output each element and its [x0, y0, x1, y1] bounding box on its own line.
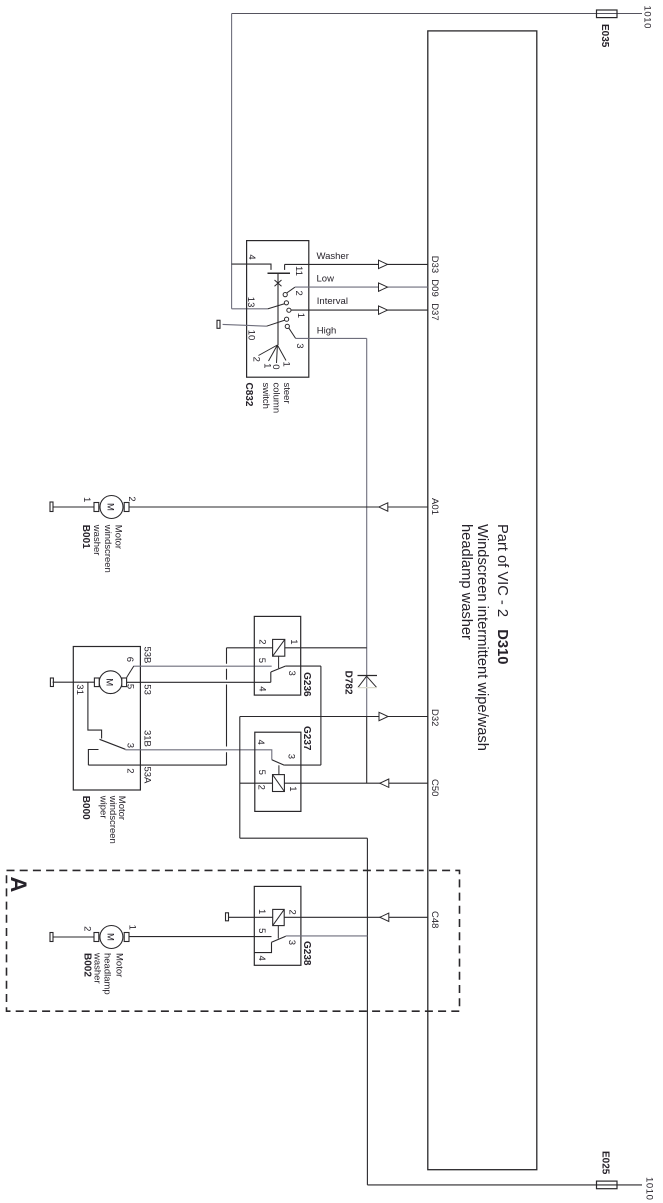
G237 coil link [278, 765, 280, 774]
B000 park blade [100, 739, 126, 749]
switch stem [277, 273, 279, 345]
svg-text:3: 3 [294, 343, 305, 348]
svg-text:4: 4 [246, 254, 257, 259]
svg-text:D33: D33 [429, 256, 440, 273]
G236 contact blade [271, 666, 286, 672]
svg-text:4: 4 [255, 740, 266, 745]
svg-text:5: 5 [125, 684, 136, 689]
svg-text:B000: B000 [80, 796, 91, 820]
dashed box A [7, 870, 460, 1011]
switch blade to Low [287, 287, 295, 293]
wire long vertical to E025 [366, 838, 368, 1185]
wire B000 pin6 riser [127, 666, 134, 678]
svg-text:Windscreen intermittent wipe/w: Windscreen intermittent wipe/wash [474, 524, 490, 751]
svg-text:Low: Low [317, 273, 335, 284]
G236 coil link [278, 656, 280, 668]
motor B002 ground wire [53, 936, 94, 938]
svg-text:G236: G236 [301, 672, 312, 697]
connector E025 [597, 1181, 618, 1189]
G237 pin3 wire [284, 764, 321, 766]
switch contact circle 3 [285, 324, 289, 328]
G237 coil [273, 775, 285, 792]
arrow D37 interval [379, 306, 388, 314]
svg-text:E035: E035 [599, 24, 610, 48]
wire bottom to E025 [367, 1184, 642, 1186]
svg-text:3: 3 [286, 940, 297, 945]
switch C832 box [247, 241, 309, 378]
G238 contact drop [254, 942, 271, 952]
switch blade pin10 to contact4 [267, 320, 285, 326]
arrow A01 [379, 503, 388, 511]
wire B000 park common [88, 682, 102, 738]
svg-text:2: 2 [256, 639, 267, 644]
motor B000 left tab [94, 678, 99, 687]
svg-text:13: 13 [245, 297, 256, 308]
svg-text:B001: B001 [80, 525, 91, 549]
wire Washer output [285, 263, 428, 265]
G236 coil wire left [227, 647, 273, 649]
washer contact right bracket [284, 264, 286, 270]
wire D32 branch vertical left [239, 717, 241, 839]
terminal B000 ground [50, 678, 53, 687]
wire D32 [240, 716, 428, 718]
svg-text:3: 3 [285, 754, 296, 759]
svg-text:6: 6 [124, 657, 135, 662]
switch contact circle 4x [285, 317, 289, 321]
switch contact circle 13 [284, 301, 288, 305]
svg-text:5: 5 [256, 658, 267, 663]
svg-text:wiper: wiper [97, 795, 108, 819]
wire 53 pin5 [127, 681, 271, 683]
svg-text:C50: C50 [429, 779, 440, 796]
svg-text:1010: 1010 [643, 1177, 654, 1201]
svg-text:steer: steer [281, 383, 292, 404]
wire C48 [284, 916, 428, 918]
wire High output [296, 337, 367, 339]
svg-text:3: 3 [124, 743, 135, 748]
diode D782 cathode bar [358, 675, 378, 677]
G236 coil diagonal [273, 639, 285, 656]
arrow D09 low [379, 283, 388, 291]
svg-text:5: 5 [256, 928, 267, 933]
svg-text:M: M [104, 933, 115, 941]
svg-text:53A: 53A [142, 767, 153, 785]
motor B000 circle [99, 671, 122, 694]
svg-text:A: A [6, 877, 31, 893]
svg-text:Interval: Interval [317, 296, 348, 307]
motor B002 circle [100, 926, 123, 949]
terminal B002 ground [50, 933, 53, 942]
svg-text:Washer: Washer [317, 251, 349, 262]
svg-text:Motor: Motor [113, 525, 124, 549]
svg-text:2: 2 [124, 768, 135, 773]
svg-text:switch: switch [260, 383, 271, 409]
wire pin 4 [232, 264, 271, 270]
G238 coil link [277, 926, 279, 939]
svg-text:M: M [105, 503, 116, 511]
svg-text:B002: B002 [82, 953, 93, 977]
arrow D32 [379, 712, 388, 720]
wire D32 to C50 junction vertical [366, 717, 368, 784]
G237 coil wire left [240, 782, 273, 784]
switch contact circle 1 [287, 308, 291, 312]
B000 park contact 53A stub [88, 750, 98, 766]
wire A01 [129, 506, 428, 508]
svg-text:3: 3 [286, 671, 297, 676]
wire C50 [284, 782, 427, 784]
svg-text:2: 2 [82, 926, 93, 931]
svg-text:D782: D782 [342, 671, 353, 695]
G236 coil wire right to High line [285, 647, 367, 649]
relay G236 box [254, 616, 300, 695]
wire B002 pin1 to G238 [129, 936, 272, 938]
svg-text:E025: E025 [600, 1151, 611, 1175]
svg-text:4: 4 [256, 686, 267, 691]
svg-text:1: 1 [280, 362, 291, 367]
terminal G238 coil feed [226, 913, 229, 921]
wire 53A riser to G236 coil (broken at crossings) [226, 648, 228, 765]
relay G238 box [254, 886, 301, 965]
svg-text:1010: 1010 [642, 6, 653, 30]
terminal B001 ground [50, 502, 53, 512]
terminal pin10 [217, 320, 220, 328]
arrow C48 [380, 913, 389, 921]
motor B001 right tab [124, 503, 129, 512]
switch blade pin13 to contact2 [268, 304, 285, 309]
svg-text:D32: D32 [429, 709, 440, 726]
wire supply 1010 top horizontal [232, 13, 642, 15]
svg-text:Part of VIC - 2 D310: Part of VIC - 2 D310 [494, 524, 510, 664]
svg-text:2: 2 [293, 291, 304, 296]
svg-text:53: 53 [142, 684, 153, 695]
switch contact circle 2 [283, 293, 287, 297]
svg-text:High: High [317, 325, 337, 336]
wire 53B gray [134, 665, 272, 667]
svg-text:headlamp washer: headlamp washer [458, 524, 474, 640]
G238 coil [273, 909, 285, 925]
arrow C50 [380, 779, 389, 787]
svg-text:M: M [104, 678, 115, 686]
motor B001 ground wire [53, 506, 94, 508]
connector E035 [597, 10, 618, 18]
svg-text:4: 4 [256, 956, 267, 961]
wire supply vertical to switch [231, 14, 233, 309]
svg-text:2: 2 [256, 785, 267, 790]
svg-text:1: 1 [256, 909, 267, 914]
svg-text:1: 1 [295, 313, 306, 318]
svg-text:D37: D37 [429, 303, 440, 320]
switch detent fan [259, 345, 287, 363]
svg-text:C832: C832 [243, 383, 254, 407]
svg-text:31B: 31B [142, 730, 153, 747]
svg-text:A01: A01 [429, 498, 440, 515]
ECU box VIC-2 D310 [428, 31, 537, 1170]
wire Interval output [291, 309, 428, 311]
wire node pin13 feed [232, 308, 268, 310]
wire Low output [295, 286, 428, 288]
wire terminal to G238 coil [229, 916, 273, 918]
svg-text:53B: 53B [142, 647, 153, 664]
wire pin 10 from terminal [223, 324, 267, 326]
svg-text:windscreen: windscreen [102, 524, 113, 573]
washer contact bar [268, 272, 291, 274]
G238 pin3 gray wire [286, 935, 368, 937]
relay G237 box [255, 732, 301, 811]
G237 coil diagonal [273, 775, 285, 792]
G236 pin3 wire [285, 665, 321, 667]
svg-text:1: 1 [287, 786, 298, 791]
motor B001 circle [100, 496, 123, 519]
svg-text:5: 5 [256, 770, 267, 775]
wire 31B gray [125, 750, 271, 760]
motor B001 left tab [94, 503, 99, 512]
G238 contact blade [272, 936, 286, 942]
wire 53A [88, 764, 226, 766]
svg-text:Motor: Motor [113, 953, 124, 977]
svg-text:0: 0 [270, 364, 281, 369]
svg-text:2: 2 [251, 357, 262, 362]
svg-text:2: 2 [287, 910, 298, 915]
svg-text:1: 1 [81, 497, 92, 502]
wire G236 pin3 to G237 pin3 vertical [320, 666, 322, 765]
switch blade contact5 to High [289, 328, 296, 338]
G236 coil [273, 639, 285, 656]
motor B000 box [73, 647, 140, 791]
svg-text:C48: C48 [429, 911, 440, 928]
svg-text:31: 31 [74, 684, 85, 695]
diode D782 triangle [358, 676, 377, 687]
svg-text:D09: D09 [429, 279, 440, 296]
motor B002 right tab [124, 933, 129, 942]
svg-text:G238: G238 [301, 941, 312, 966]
switch link X mark [275, 280, 282, 286]
motor B000 right tab [122, 678, 127, 687]
svg-text:11: 11 [293, 266, 304, 276]
motor B000 ground wire pin31 [53, 681, 95, 683]
svg-text:G237: G237 [301, 726, 312, 751]
svg-text:1: 1 [288, 639, 299, 644]
motor B002 left tab [94, 933, 99, 942]
svg-text:washer: washer [91, 524, 102, 556]
G238 coil diagonal [273, 909, 285, 925]
svg-text:column: column [271, 383, 282, 414]
G236 contact drop [270, 672, 272, 682]
svg-text:2: 2 [126, 496, 137, 501]
svg-text:10: 10 [245, 330, 256, 341]
wire branch horizontal y838 [240, 837, 368, 839]
wire High vertical down [366, 338, 368, 716]
svg-text:1: 1 [127, 925, 138, 930]
arrow D33 washer [379, 260, 388, 268]
G237 contact blade [272, 760, 285, 766]
